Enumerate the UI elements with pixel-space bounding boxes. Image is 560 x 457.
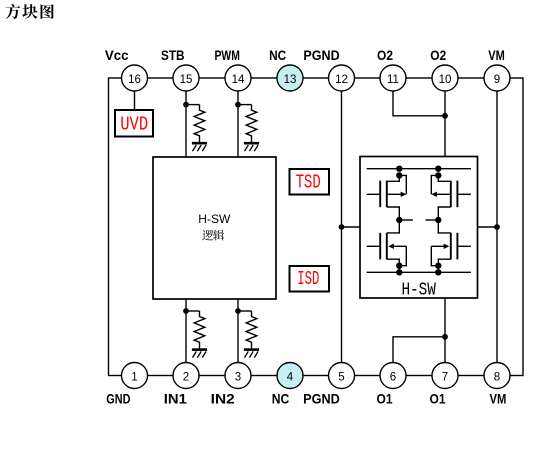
body/source arrow Q2 (high-side right)	[431, 175, 438, 194]
wire pin3 to logic box	[237, 299, 239, 376]
ground (R1 (STB pull-down))	[192, 142, 207, 145]
gate Q1 (high-side left)	[379, 181, 381, 208]
svg-text:6: 6	[390, 371, 396, 383]
transistor Q3 (low-side left)	[387, 220, 400, 233]
svg-text:16: 16	[128, 74, 141, 86]
resistor R3 (IN1 pull-down)	[194, 311, 205, 349]
svg-text:PGND: PGND	[303, 391, 340, 407]
H-SW logic block U1	[153, 157, 276, 299]
svg-text:O1: O1	[377, 391, 393, 407]
UVD block	[115, 110, 153, 137]
transistor Q4 (low-side right)	[438, 220, 451, 233]
junction dot VM branch	[494, 224, 500, 230]
pin 9 (VM) top	[484, 65, 510, 91]
GND rail (bottom)	[367, 271, 471, 273]
svg-text:9: 9	[494, 74, 500, 86]
H-SW output block U2	[360, 157, 478, 299]
wire stub to R4	[238, 310, 252, 312]
junction dot O2	[442, 113, 448, 119]
svg-text:STB: STB	[161, 47, 185, 63]
resistor R2 (PWM pull-down)	[246, 105, 257, 143]
junction dots Q1 (high-side left) source	[396, 166, 402, 172]
junction dot pin3/R4	[235, 308, 241, 314]
svg-text:VM: VM	[488, 47, 505, 63]
pin 10 (O2) top	[432, 65, 458, 91]
gate Q2 (high-side right)	[456, 181, 458, 208]
node output right (mid)	[435, 217, 441, 223]
svg-text:13: 13	[284, 74, 297, 86]
svg-text:IN2: IN2	[211, 391, 235, 407]
resistor R1 (STB pull-down)	[194, 105, 205, 143]
title 方块图 (Block Diagram)	[6, 4, 54, 19]
svg-text:3: 3	[235, 371, 241, 383]
pin 5 (PGND) bottom	[329, 363, 355, 389]
junction dots Q2 (high-side right) source	[435, 166, 441, 172]
svg-text:O2: O2	[377, 47, 393, 63]
svg-text:UVD: UVD	[120, 114, 148, 136]
wire O1 to pin7	[444, 337, 446, 363]
junction dot PGND branch	[339, 224, 345, 230]
wire pin11 (O2) down	[393, 91, 445, 116]
junction dot O1	[442, 334, 448, 340]
svg-text:10: 10	[439, 74, 452, 86]
junction dot pin15/R1	[183, 102, 189, 108]
pin 13 (NC) top	[277, 65, 303, 91]
label 逻辑 (logic)	[202, 230, 224, 241]
svg-text:PWM: PWM	[215, 47, 240, 63]
wire PGND to H-SW box left edge	[342, 226, 361, 228]
wire pin15 to logic box	[185, 78, 187, 157]
pin 7 (O1) bottom	[432, 363, 458, 389]
junction dot pin14/R2	[235, 102, 241, 108]
svg-text:GND: GND	[106, 391, 130, 407]
svg-text:2: 2	[183, 371, 189, 383]
wire stub to R1	[186, 104, 200, 106]
wire pin10 (O2) to H-SW box top	[444, 78, 446, 157]
pin 15 (STB) top	[173, 65, 199, 91]
pin 16 (Vcc) top	[122, 65, 148, 91]
svg-text:8: 8	[494, 371, 500, 383]
svg-text:TSD: TSD	[296, 171, 321, 193]
gate Q4 (low-side right)	[456, 233, 458, 260]
svg-text:H-SW: H-SW	[198, 212, 231, 226]
TSD block	[290, 169, 330, 195]
pin 6 (O1) bottom	[380, 363, 406, 389]
wire pin14 to logic box	[237, 78, 239, 157]
junction dots Q3 (low-side left) source	[396, 263, 402, 269]
svg-text:PGND: PGND	[303, 47, 339, 63]
pin 4 (NC) bottom	[277, 363, 303, 389]
svg-text:H-SW: H-SW	[401, 279, 436, 300]
wire pin12 to pin5 (PGND)	[341, 78, 343, 376]
ground (R3 (IN1 pull-down))	[192, 348, 207, 351]
IC package outline (wire frame through pins)	[109, 78, 524, 376]
pin 12 (PGND) top	[329, 65, 355, 91]
svg-text:11: 11	[387, 74, 399, 86]
wire H-SW box bottom to O1 pins	[444, 298, 446, 337]
gate Q3 (low-side left)	[379, 233, 381, 260]
wire pin9 to pin8 (VM)	[496, 78, 498, 376]
wire pin2 to logic box	[185, 299, 187, 376]
pin 8 (VM) bottom	[484, 363, 510, 389]
svg-text:1: 1	[131, 371, 137, 383]
svg-text:4: 4	[287, 371, 294, 383]
VM rail (top)	[367, 168, 471, 170]
svg-text:VM: VM	[490, 391, 507, 407]
svg-text:14: 14	[232, 74, 245, 86]
wire stub to R3	[186, 310, 200, 312]
body/source arrow Q4 (low-side right)	[431, 246, 438, 265]
svg-text:O2: O2	[430, 47, 446, 63]
svg-text:Vcc: Vcc	[105, 47, 129, 63]
svg-text:O1: O1	[430, 391, 446, 407]
node output left (mid)	[396, 217, 402, 223]
svg-text:IN1: IN1	[164, 391, 187, 407]
pin 3 (IN2) bottom	[225, 363, 251, 389]
resistor R4 (IN2 pull-down)	[246, 311, 257, 349]
svg-text:7: 7	[442, 371, 448, 383]
pin 1 (GND) bottom	[122, 363, 148, 389]
ground (R4 (IN2 pull-down))	[244, 348, 259, 351]
wire pin16 to UVD	[134, 78, 136, 110]
wire stub to R2	[238, 104, 252, 106]
pin 2 (IN1) bottom	[173, 363, 199, 389]
wire O1 branch to pin6	[393, 337, 445, 363]
svg-text:NC: NC	[272, 391, 290, 407]
body/source arrow Q3 (low-side left)	[399, 246, 406, 265]
body/source arrow Q1 (high-side left)	[399, 175, 406, 194]
svg-text:12: 12	[335, 74, 348, 86]
junction dots Q4 (low-side right) source	[435, 263, 441, 269]
svg-text:15: 15	[180, 74, 193, 86]
ground (R2 (PWM pull-down))	[244, 142, 259, 145]
wire H-SW box right edge to VM	[478, 226, 498, 228]
ISD block	[290, 266, 330, 292]
svg-text:NC: NC	[269, 47, 286, 63]
svg-text:ISD: ISD	[297, 268, 319, 290]
junction dot pin2/R3	[183, 308, 189, 314]
pin 11 (O2) top	[380, 65, 406, 91]
pin 14 (PWM) top	[225, 65, 251, 91]
svg-text:5: 5	[338, 371, 344, 383]
